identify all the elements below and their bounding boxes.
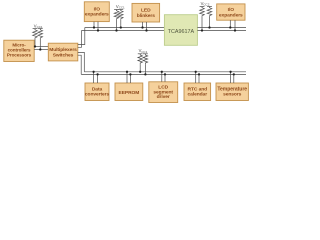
resistor: top pull-up to VCC1 on SCL (114, 10, 119, 31)
junction: top VCC1 pull-up on SCL (115, 29, 117, 31)
block: EEPROM (115, 83, 143, 101)
wire: top bus SCL line (A side) (82, 30, 165, 32)
resistor: bottom pull-up to VCC1 on SDA (138, 54, 143, 72)
junction: temperature sensors SCL (233, 73, 235, 75)
block: RTC and calendar (184, 83, 211, 101)
block: I/O expanders (top left) (84, 2, 109, 22)
block: multiplexers / switches (48, 43, 78, 61)
junction: VCC2 pull-up on SDA (208, 26, 210, 28)
svg-text:blinkers: blinkers (137, 13, 155, 19)
svg-text:I/O: I/O (228, 7, 235, 13)
svg-text:expanders: expanders (219, 12, 243, 18)
block: microcontrollers / processors (4, 40, 34, 61)
wire: data converters stub to SCL (97, 74, 99, 83)
wire: temperature sensors stub to SDA (230, 72, 232, 83)
wire: SDA from microcontroller to multiplexers (34, 46, 48, 48)
wire: bottom bus SDA line (84, 71, 246, 73)
resistor: B-side pull-up to VCC2 on SCL (200, 7, 205, 31)
junction: bottom VCC1 pull-up on SDA (139, 71, 141, 73)
VCC1 rail symbol (bottom pull-up pair) (139, 48, 148, 54)
svg-text:controllers: controllers (8, 47, 31, 52)
svg-text:calendar: calendar (188, 92, 208, 98)
VCC2 rail symbol (B-side pull-up pair) (201, 1, 210, 7)
junction: right I/O expanders SCL (234, 29, 236, 31)
wire: mux upper channel SDA up to top bus (78, 28, 85, 45)
junction: left SDA pull-up (34, 45, 36, 47)
svg-text:driver: driver (157, 94, 170, 100)
wire: RTC stub to SCL (198, 74, 200, 83)
wire: B-side SDA line (197, 27, 246, 29)
svg-text:VCC1: VCC1 (139, 48, 148, 54)
resistor: bottom pull-up to VCC1 on SCL (143, 54, 148, 75)
wire: mux lower channel SCL down to bottom bus (78, 55, 81, 74)
block: LCD segment driver (149, 82, 178, 103)
svg-text:VCC1: VCC1 (34, 23, 43, 29)
wire: EEPROM stub to SCL (129, 74, 131, 83)
svg-text:TCA9617A: TCA9617A (168, 29, 195, 35)
resistor: top pull-up to VCC1 on SDA (118, 10, 123, 28)
wire: right I/O expanders stub to SDA (229, 20, 231, 27)
wire: mux lower channel SDA down to bottom bus (78, 52, 85, 71)
junction: data converters SDA (92, 71, 94, 73)
junction: data converters SCL (96, 73, 98, 75)
wire: LED blinkers stub to SCL (146, 22, 148, 31)
wire: right I/O expanders stub to SCL (234, 20, 236, 30)
svg-text:EEPROM: EEPROM (119, 90, 140, 96)
block: I/O expanders (top right) (217, 4, 245, 20)
wire: LED blinkers stub to SDA (142, 22, 144, 28)
svg-text:Processors: Processors (7, 53, 32, 58)
VCC1 rail symbol (top pull-up pair) (116, 4, 125, 10)
svg-text:LED: LED (141, 8, 151, 14)
svg-text:Temperature: Temperature (217, 86, 247, 92)
wire: EEPROM stub to SDA (126, 72, 128, 83)
junction: I/O expanders SCL (97, 29, 99, 31)
svg-text:VCC2: VCC2 (201, 1, 210, 7)
wire: temperature sensors stub to SCL (233, 74, 235, 83)
svg-text:expanders: expanders (85, 12, 109, 18)
svg-text:I/O: I/O (94, 6, 101, 12)
junction: temperature sensors SDA (229, 71, 231, 73)
junction: left SCL pull-up (39, 48, 41, 50)
junction: RTC SCL (198, 73, 200, 75)
svg-text:RTC and: RTC and (188, 86, 208, 92)
junction: top VCC1 pull-up on SDA (120, 26, 122, 28)
junction: VCC2 pull-up on SCL (201, 29, 203, 31)
svg-text:converters: converters (85, 92, 110, 98)
VCC1 rail symbol (left pull-up pair) (34, 23, 43, 29)
wire: LCD driver stub to SCL (164, 74, 166, 81)
block: LED blinkers (132, 3, 160, 22)
wire: RTC stub to SDA (195, 72, 197, 83)
wire: data converters stub to SDA (93, 72, 95, 83)
wire: bottom bus SCL line (81, 73, 246, 75)
resistor: pull-up to VCC1 on SDA (left pair) (33, 29, 38, 47)
block: temperature sensors (216, 83, 248, 101)
svg-text:Multiplexers: Multiplexers (49, 47, 77, 53)
wire: B-side SCL line (197, 30, 246, 32)
wire: LCD driver stub to SDA (161, 72, 163, 82)
svg-text:Switches: Switches (53, 52, 74, 58)
wire: SCL from microcontroller to multiplexers (34, 49, 48, 51)
junction: EEPROM SCL (129, 73, 131, 75)
junction: bottom VCC1 pull-up on SCL (144, 73, 146, 75)
svg-text:sensors: sensors (223, 92, 242, 98)
junction: right I/O expanders SDA (229, 26, 231, 28)
IC: TCA9617A bus repeater (164, 15, 197, 46)
junction: RTC SDA (195, 71, 197, 73)
junction: LCD driver SCL (164, 73, 166, 75)
junction: LED blinkers SDA (141, 26, 143, 28)
junction: LCD driver SDA (161, 71, 163, 73)
junction: LED blinkers SCL (145, 29, 147, 31)
svg-text:Data: Data (92, 86, 103, 92)
wire: I/O expanders stub to SCL (97, 22, 99, 31)
svg-text:VCC1: VCC1 (116, 4, 125, 10)
junction: EEPROM SDA (126, 71, 128, 73)
junction: I/O expanders SDA (93, 26, 95, 28)
wire: I/O expanders stub to SDA (93, 22, 95, 28)
resistor: pull-up to VCC1 on SCL (left pair) (38, 29, 43, 50)
wire: mux upper channel SCL up to top bus (78, 31, 82, 48)
resistor: B-side pull-up to VCC2 on SDA (207, 7, 212, 28)
wire: top bus SDA line (A side) (85, 27, 165, 29)
block: data converters (85, 83, 110, 101)
